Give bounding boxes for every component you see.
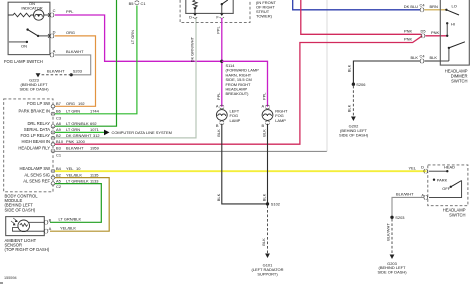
svg-text:AL SENS REF: AL SENS REF — [23, 178, 50, 183]
svg-text:LT GRN: LT GRN — [66, 127, 80, 132]
wire BLK/WHT fog switch A to S203 — [55, 49, 91, 75]
svg-text:BLK: BLK — [216, 193, 221, 201]
dimmer HI contact — [446, 21, 455, 37]
svg-text:BRN: BRN — [430, 4, 438, 9]
svg-text:BLK: BLK — [346, 64, 351, 72]
svg-text:AL SENS SIG: AL SENS SIG — [24, 172, 50, 177]
svg-text:SIDE OF DASH): SIDE OF DASH) — [19, 86, 49, 91]
headlamp switch PARK contact — [433, 177, 448, 182]
svg-text:BLK/WHT: BLK/WHT — [385, 223, 390, 241]
page id — [0, 276, 17, 283]
dashed BLK/WHT to ground G223 — [41, 68, 72, 75]
svg-text:A: A — [421, 192, 424, 197]
svg-text:LT GRN/BLK: LT GRN/BLK — [59, 217, 82, 222]
svg-text:HIGH BEAM IN: HIGH BEAM IN — [21, 139, 50, 144]
left fog lamp pin B — [216, 121, 224, 128]
svg-text:BLK/WHT: BLK/WHT — [47, 68, 65, 73]
wire BLK to S206 — [346, 55, 420, 83]
headlamp switch pin D — [421, 165, 428, 174]
fog lamp switch SW1 box — [4, 1, 50, 64]
wire YEL BCM to headlamp switch — [55, 165, 427, 171]
svg-text:C1: C1 — [141, 1, 146, 6]
svg-text:C4: C4 — [420, 54, 426, 59]
svg-text:155594: 155594 — [4, 276, 17, 280]
svg-text:PNK: PNK — [404, 37, 412, 42]
ground G203 — [377, 255, 407, 275]
svg-text:A: A — [53, 48, 56, 53]
svg-text:D: D — [421, 165, 424, 170]
ON contact — [9, 41, 28, 49]
connector C4 (DK BLU/BRN) — [420, 2, 426, 12]
svg-text:A9: A9 — [56, 127, 61, 132]
headlamp switch pin A — [421, 192, 427, 199]
svg-text:BLK: BLK — [262, 129, 267, 137]
svg-text:BLK: BLK — [216, 129, 221, 137]
wire PPL relay F to S114 and left fog lamp — [216, 18, 222, 107]
wire BLK left fog lamp ground — [216, 124, 267, 204]
svg-text:LT GRN: LT GRN — [66, 109, 80, 114]
ground G223 — [19, 73, 49, 91]
resistor R (indicator dropping resistor) — [8, 13, 33, 17]
BCM pin A9 SERIAL DATA — [24, 127, 99, 134]
splice S203 (left) — [70, 68, 83, 76]
svg-text:ORG: ORG — [66, 101, 75, 106]
svg-text:COMPUTER DATA LINE SYSTEM: COMPUTER DATA LINE SYSTEM — [112, 130, 172, 135]
wire DK BLU from top to dimmer switch — [293, 0, 421, 10]
svg-text:BLK/WHT: BLK/WHT — [66, 49, 84, 54]
svg-text:SUPPORT): SUPPORT) — [257, 272, 278, 277]
svg-text:OFF: OFF — [442, 186, 450, 191]
wire LT GRN C1-B5 to BCM PARK BRAKE IN — [55, 6, 137, 114]
wire PNK to dimmer switch common — [425, 30, 447, 36]
svg-text:1133: 1133 — [90, 178, 99, 183]
svg-text:B3: B3 — [56, 146, 62, 151]
svg-text:FOG LP SW: FOG LP SW — [27, 101, 50, 106]
wire BLK right fog lamp ground — [262, 124, 268, 204]
dimmer lower lever — [440, 42, 465, 61]
headlamp switch OFF lever — [429, 181, 462, 198]
pin D — [48, 29, 56, 38]
dashed BLK to ground G101 — [261, 206, 268, 254]
BCM pin A8 DRL RELAY — [27, 121, 96, 128]
wire LT GRN serial data to computer data lines — [55, 130, 172, 136]
right fog lamp pin B — [262, 121, 270, 128]
svg-text:DK GRN/WHT: DK GRN/WHT — [66, 133, 92, 138]
headlamp switch HEAD contact — [429, 165, 455, 173]
dimmer LO contact — [445, 3, 459, 15]
pin A — [50, 48, 56, 57]
BCM pin B3 HEADLAMP RLY — [18, 146, 98, 158]
wire PPL fog switch C to S114 — [55, 9, 221, 61]
svg-text:DK GRN/WHT: DK GRN/WHT — [190, 36, 195, 62]
svg-text:LAMP: LAMP — [230, 118, 241, 123]
fog lamp relay box — [186, 0, 233, 13]
svg-text:BLK/WHT: BLK/WHT — [66, 146, 84, 151]
svg-text:SIDE OF DASH): SIDE OF DASH) — [339, 133, 369, 138]
svg-text:S203: S203 — [395, 215, 405, 220]
svg-text:DK BLU: DK BLU — [404, 4, 418, 9]
svg-text:B: B — [262, 123, 265, 128]
relay switch contact — [221, 0, 228, 13]
svg-text:BREAKOUT): BREAKOUT) — [226, 91, 250, 96]
svg-text:(TOP RIGHT OF DASH): (TOP RIGHT OF DASH) — [5, 247, 50, 252]
svg-text:BLK: BLK — [262, 193, 267, 201]
wire DK GRN/WHT BCM to fog lamp relay coil — [55, 18, 196, 138]
svg-text:C4: C4 — [420, 2, 426, 7]
sensor pin A — [44, 226, 52, 233]
connector D5 (PNK) — [421, 29, 427, 38]
sensor internal leads — [13, 222, 45, 231]
svg-text:PPL: PPL — [216, 25, 221, 33]
fog lamp relay dashed enclosure — [180, 0, 276, 23]
svg-text:SWITCH: SWITCH — [449, 213, 465, 218]
wire PPL S114 branch to right fog lamp — [222, 61, 268, 107]
svg-text:SIDE OF DASH): SIDE OF DASH) — [377, 270, 407, 275]
BCM pin B4 HEADLAMP SW — [19, 166, 81, 173]
svg-text:BLK: BLK — [261, 238, 266, 246]
BCM pin A5 AL SENS REF — [23, 178, 99, 189]
svg-text:PPL: PPL — [262, 92, 267, 100]
svg-text:A: A — [49, 226, 52, 231]
headlamp switch dashed box — [428, 165, 468, 218]
wire BLK/WHT headlamp switch A to S203 — [392, 192, 423, 216]
right fog lamp pin A — [262, 103, 270, 109]
svg-text:LAMP: LAMP — [275, 118, 286, 123]
svg-text:PPL: PPL — [66, 9, 74, 14]
svg-text:HEADLAMP SW: HEADLAMP SW — [19, 166, 50, 171]
wire LT GRN/BLK BCM to ambient light sensor B — [50, 184, 101, 223]
ground G101 — [252, 254, 284, 277]
BCM pin B2 AL SENS SIG — [24, 172, 99, 179]
svg-text:DRL RELAY: DRL RELAY — [27, 121, 50, 126]
svg-text:PNK: PNK — [404, 28, 412, 33]
svg-text:1135: 1135 — [90, 172, 99, 177]
svg-text:D5: D5 — [421, 29, 427, 34]
svg-text:LT GRN/BLK: LT GRN/BLK — [66, 121, 89, 126]
svg-text:SERIAL DATA: SERIAL DATA — [24, 127, 50, 132]
BCM pin B2 FOG LP RELAY — [20, 133, 99, 140]
svg-text:LT GRN/BLK: LT GRN/BLK — [66, 178, 89, 183]
svg-text:A5: A5 — [56, 178, 62, 183]
svg-text:YEL/BLK: YEL/BLK — [60, 225, 76, 230]
svg-text:BLK/WHT: BLK/WHT — [396, 192, 414, 197]
svg-text:HEADLAMP RLY: HEADLAMP RLY — [18, 146, 50, 151]
wire BLK/WHT headlamp relay row — [55, 150, 327, 152]
svg-text:1744: 1744 — [90, 109, 100, 114]
svg-text:C2: C2 — [56, 184, 61, 189]
left fog lamp pin A — [216, 103, 224, 109]
wire ORG fog switch D to BCM FOG LP SW — [55, 30, 96, 106]
wire LT GRN/BLK top to BCM DRL RELAY — [55, 0, 117, 126]
svg-text:D: D — [53, 29, 56, 34]
svg-text:A8: A8 — [56, 121, 62, 126]
svg-text:1071: 1071 — [90, 127, 99, 132]
ground G202 — [339, 117, 369, 138]
svg-text:PNK: PNK — [66, 139, 74, 144]
BCM pin B6 PARK BRAKE IN — [19, 109, 100, 121]
wire YEL/BLK BCM to ambient light sensor A — [50, 178, 109, 232]
svg-text:SWITCH: SWITCH — [451, 79, 467, 84]
svg-text:HEAD: HEAD — [444, 165, 455, 170]
svg-text:ON: ON — [21, 44, 27, 49]
svg-text:PARK BRAKE IN: PARK BRAKE IN — [19, 109, 50, 114]
svg-text:S203: S203 — [73, 68, 83, 73]
fog switch lever — [26, 28, 50, 37]
svg-text:B10: B10 — [56, 139, 64, 144]
svg-text:S102: S102 — [271, 202, 280, 207]
body control module dashed box — [4, 99, 53, 212]
svg-text:PNK: PNK — [431, 30, 439, 35]
svg-text:YEL/BLK: YEL/BLK — [66, 172, 82, 177]
svg-text:C: C — [53, 8, 56, 13]
indicator lamp ON INDICATOR — [34, 10, 50, 20]
connector C1 pin B5 (top) — [129, 1, 146, 6]
page fold line — [326, 0, 328, 151]
svg-text:1959: 1959 — [90, 146, 99, 151]
svg-text:BLK: BLK — [430, 55, 438, 60]
svg-text:C3: C3 — [56, 115, 62, 120]
svg-text:A: A — [262, 103, 265, 108]
wire PNK high beam BCM to dimmer switch — [55, 36, 422, 144]
svg-text:692: 692 — [90, 121, 97, 126]
ambient light sensor photocell — [11, 218, 30, 232]
splice S114 — [220, 60, 259, 97]
ambient light sensor box — [5, 217, 50, 253]
svg-text:TOWER): TOWER) — [256, 14, 273, 19]
relay pin D — [189, 13, 197, 19]
svg-text:S206: S206 — [356, 82, 366, 87]
svg-text:B: B — [216, 123, 219, 128]
svg-text:BLK: BLK — [411, 55, 419, 60]
svg-text:PARK: PARK — [437, 177, 448, 182]
connector C4 (BLK) — [420, 54, 426, 64]
wire BRN to dimmer LO — [424, 4, 446, 10]
BCM pin B7 FOG LP SW — [27, 101, 85, 108]
svg-text:HI: HI — [451, 21, 455, 26]
dashed BLK to ground G202 — [347, 86, 354, 117]
wire PNK from top to connector D5 — [301, 0, 421, 34]
svg-text:SIDE OF DASH): SIDE OF DASH) — [5, 207, 36, 212]
svg-text:YEL: YEL — [66, 166, 74, 171]
svg-text:B: B — [49, 217, 52, 222]
pin C — [48, 8, 56, 17]
svg-text:312: 312 — [93, 133, 100, 138]
svg-text:FOG LP RELAY: FOG LP RELAY — [20, 133, 50, 138]
relay pin F — [216, 13, 224, 19]
svg-text:B2: B2 — [56, 172, 61, 177]
svg-text:192: 192 — [78, 101, 85, 106]
svg-text:B2: B2 — [56, 133, 61, 138]
svg-text:FOG LAMP SWITCH: FOG LAMP SWITCH — [4, 59, 43, 64]
left fog lamp E1 — [216, 109, 240, 123]
svg-text:B4: B4 — [56, 166, 62, 171]
svg-text:B5: B5 — [129, 1, 135, 6]
BCM pin B10 HIGH BEAM IN — [21, 139, 85, 146]
headlamp dimmer switch box — [440, 0, 469, 84]
sensor pin B — [44, 217, 52, 224]
svg-text:D: D — [189, 14, 192, 19]
right fog lamp E2 — [262, 109, 288, 123]
svg-text:B6: B6 — [56, 109, 62, 114]
splice S102 — [266, 202, 280, 207]
svg-text:YEL: YEL — [409, 165, 417, 170]
svg-text:LT GRN: LT GRN — [130, 30, 135, 44]
svg-text:LO: LO — [452, 3, 457, 8]
svg-text:PPL: PPL — [216, 92, 221, 100]
svg-text:B7: B7 — [56, 101, 61, 106]
svg-text:A: A — [216, 103, 219, 108]
svg-text:C1: C1 — [56, 153, 61, 158]
svg-text:BLK: BLK — [347, 104, 352, 112]
svg-text:ORG: ORG — [66, 30, 75, 35]
relay coil — [193, 0, 197, 13]
wire BLK dimmer switch to connector C4 — [424, 55, 440, 61]
dashed BLK/WHT to ground G203 — [385, 219, 392, 255]
splice S206 — [352, 82, 367, 87]
splice S203 (right) — [390, 215, 405, 220]
svg-text:1200: 1200 — [76, 139, 86, 144]
